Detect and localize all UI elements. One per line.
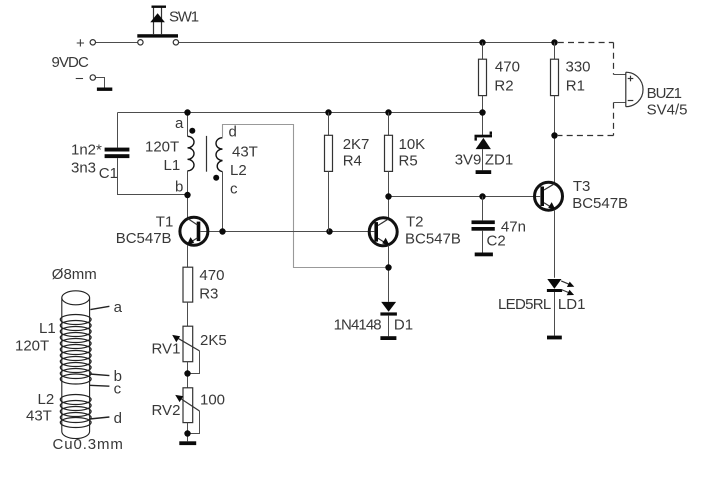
svg-text:R1: R1 bbox=[566, 77, 585, 94]
svg-text:R3: R3 bbox=[199, 285, 218, 302]
svg-text:9VDC: 9VDC bbox=[52, 54, 89, 71]
svg-text:BC547B: BC547B bbox=[572, 195, 628, 212]
svg-text:100: 100 bbox=[200, 391, 225, 408]
svg-text:−: − bbox=[75, 70, 84, 87]
svg-text:R2: R2 bbox=[494, 77, 513, 94]
svg-text:120T: 120T bbox=[145, 139, 179, 156]
svg-text:LED5RL: LED5RL bbox=[498, 296, 551, 313]
svg-text:C1: C1 bbox=[99, 165, 118, 182]
svg-text:10K: 10K bbox=[399, 136, 426, 153]
svg-text:3V9: 3V9 bbox=[455, 151, 482, 168]
svg-text:RV1: RV1 bbox=[152, 341, 181, 358]
svg-text:ZD1: ZD1 bbox=[485, 151, 513, 168]
svg-text:LD1: LD1 bbox=[558, 296, 586, 313]
svg-text:T2: T2 bbox=[406, 213, 424, 230]
svg-text:T1: T1 bbox=[156, 213, 174, 230]
svg-text:L1: L1 bbox=[39, 320, 56, 337]
svg-text:Ø8mm: Ø8mm bbox=[52, 266, 97, 283]
svg-text:RV2: RV2 bbox=[152, 402, 181, 419]
svg-text:SW1: SW1 bbox=[169, 8, 199, 25]
svg-text:2K7: 2K7 bbox=[343, 136, 370, 153]
svg-text:470: 470 bbox=[495, 59, 520, 76]
svg-text:b: b bbox=[175, 179, 183, 196]
svg-text:R4: R4 bbox=[343, 152, 362, 169]
svg-text:BC547B: BC547B bbox=[116, 230, 172, 247]
svg-text:BC547B: BC547B bbox=[405, 230, 461, 247]
svg-text:c: c bbox=[114, 381, 122, 398]
svg-text:D1: D1 bbox=[394, 317, 413, 334]
svg-text:1n2*: 1n2* bbox=[71, 141, 102, 158]
svg-text:330: 330 bbox=[566, 59, 591, 76]
svg-text:120T: 120T bbox=[15, 338, 49, 355]
svg-text:L2: L2 bbox=[38, 391, 55, 408]
svg-text:43T: 43T bbox=[232, 144, 258, 161]
svg-text:1N4148: 1N4148 bbox=[334, 317, 382, 334]
svg-text:c: c bbox=[230, 181, 238, 198]
svg-text:C2: C2 bbox=[487, 233, 506, 250]
svg-text:T3: T3 bbox=[573, 178, 591, 195]
svg-text:Cu0.3mm: Cu0.3mm bbox=[53, 436, 124, 453]
svg-text:470: 470 bbox=[199, 267, 224, 284]
svg-text:L1: L1 bbox=[164, 157, 181, 174]
svg-text:d: d bbox=[114, 410, 122, 427]
svg-text:SV4/5: SV4/5 bbox=[647, 102, 688, 119]
svg-text:R5: R5 bbox=[399, 152, 418, 169]
svg-text:a: a bbox=[175, 115, 184, 132]
svg-text:43T: 43T bbox=[26, 408, 52, 425]
svg-text:+: + bbox=[76, 35, 85, 52]
svg-text:a: a bbox=[114, 299, 123, 316]
svg-text:2K5: 2K5 bbox=[200, 332, 227, 349]
svg-text:3n3: 3n3 bbox=[71, 160, 96, 177]
svg-text:L2: L2 bbox=[230, 162, 247, 179]
svg-text:BUZ1: BUZ1 bbox=[647, 85, 682, 102]
svg-text:d: d bbox=[229, 124, 237, 141]
